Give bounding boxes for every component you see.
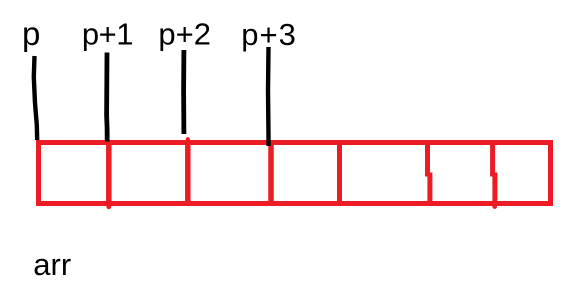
svg-text:p+1: p+1 bbox=[82, 17, 133, 52]
svg-text:p: p bbox=[22, 15, 40, 52]
svg-text:p+3: p+3 bbox=[241, 17, 297, 52]
svg-text:p+2: p+2 bbox=[158, 17, 211, 52]
svg-text:arr: arr bbox=[33, 247, 71, 282]
